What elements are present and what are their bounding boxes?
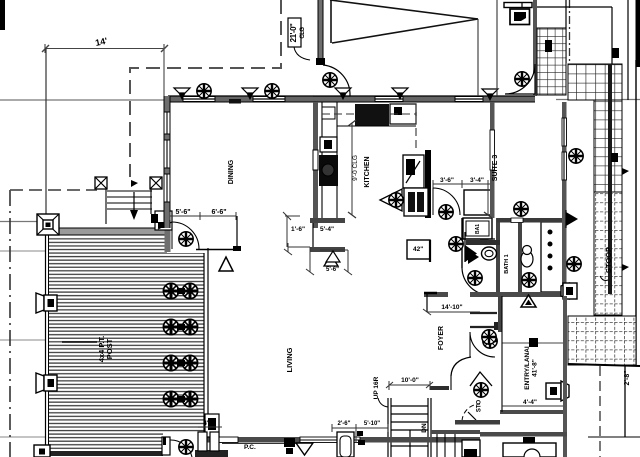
top-right door arc xyxy=(505,64,535,94)
dashed line y190 xyxy=(10,189,97,191)
wall right of fireplace xyxy=(533,0,537,96)
window tag triangle mid xyxy=(521,295,536,307)
stair post left xyxy=(95,177,107,189)
construction line left y100 xyxy=(0,99,167,101)
door jamb boxes bottom xyxy=(198,432,207,451)
svg-text:ENTRY/LANAI: ENTRY/LANAI xyxy=(524,346,531,390)
dining bottom corner vertical xyxy=(236,216,238,249)
line from apex down xyxy=(477,19,479,96)
wall left (dining) xyxy=(164,96,170,228)
porch step edge bottom xyxy=(195,450,228,457)
stair flag xyxy=(131,180,138,187)
wc box xyxy=(462,440,480,457)
dining bottom wall xyxy=(196,249,241,251)
suite3 left wall xyxy=(490,102,495,218)
front door foot xyxy=(561,283,577,299)
svg-text:STOOP: STOOP xyxy=(604,247,613,273)
pointer triangle bath1 xyxy=(465,245,477,262)
bottom tile grid right xyxy=(568,316,636,365)
angled closet door xyxy=(470,372,492,386)
bottom wall main xyxy=(205,437,480,443)
svg-text:POST: POST xyxy=(105,338,114,359)
living dim right corner xyxy=(284,243,314,275)
dim bracket 1'6 xyxy=(283,212,300,247)
entry bench lines xyxy=(470,312,497,314)
bath1 door arc xyxy=(462,268,490,295)
foyer step corner xyxy=(426,292,428,312)
top stub lines near x497 xyxy=(496,0,498,96)
living label xyxy=(285,347,294,372)
svg-text:4'-4": 4'-4" xyxy=(204,421,217,427)
svg-text:P.C.: P.C. xyxy=(244,444,256,451)
svg-text:42": 42" xyxy=(413,246,423,253)
bath walls xyxy=(461,218,463,268)
entry lanai label xyxy=(524,346,539,390)
entry wall vertical x500 xyxy=(498,296,502,332)
REF box xyxy=(403,155,424,188)
fan entry xyxy=(567,257,581,271)
deck left edge xyxy=(45,228,47,455)
small black marks right xyxy=(612,48,619,58)
dashed upper cabinets xyxy=(322,113,356,115)
entry right wall xyxy=(563,296,567,457)
construction line y221 xyxy=(0,221,44,223)
dining door fan xyxy=(179,232,193,246)
small dim bracket living top left xyxy=(320,250,352,275)
kitchen bottom-left wall xyxy=(310,218,345,223)
stair post right xyxy=(150,177,162,189)
wall stub top center xyxy=(318,0,323,62)
svg-text:3'-6": 3'-6" xyxy=(440,177,454,184)
deck corner post top-left xyxy=(37,214,59,235)
vaulted clg triangle xyxy=(330,0,478,43)
kitchen counters left xyxy=(321,102,323,218)
kitchen label xyxy=(364,156,371,187)
kitchen appliances left black xyxy=(320,137,337,152)
construction line right y99 xyxy=(556,99,640,101)
wall segment xyxy=(455,420,500,425)
construction line y340 xyxy=(0,339,46,341)
deck fan pair row2 xyxy=(163,319,178,334)
closet bottom left of stairs xyxy=(337,432,354,457)
window sills on top wall xyxy=(183,97,483,102)
svg-text:2'-8": 2'-8" xyxy=(624,370,631,385)
dn label xyxy=(421,423,428,433)
window tag triangle 2 xyxy=(324,255,338,266)
svg-text:41'-8": 41'-8" xyxy=(532,359,539,377)
corner mark top-left xyxy=(0,0,5,30)
tile grid top (stoop steps) xyxy=(537,28,566,95)
dim small 4-4 xyxy=(198,426,222,428)
deck bottom band xyxy=(36,451,166,456)
toilet room xyxy=(521,251,533,267)
svg-text:6'-6": 6'-6" xyxy=(211,209,226,216)
svg-text:1'-6": 1'-6" xyxy=(291,226,305,233)
suite3 label xyxy=(492,155,499,182)
dimension vertical x164 xyxy=(163,44,165,96)
post in tile grid xyxy=(545,40,552,52)
stoop label xyxy=(604,247,613,273)
dash-dot property line left xyxy=(9,190,11,457)
main mid wall y292 xyxy=(424,292,567,297)
svg-text:5'-10": 5'-10" xyxy=(364,421,380,427)
small wall dash xyxy=(229,99,241,104)
dark vertical band xyxy=(608,64,612,294)
wall kitchen-dining divider xyxy=(313,102,318,228)
bath2 box bottom right xyxy=(503,443,556,457)
svg-text:SUITE 3: SUITE 3 xyxy=(492,155,499,182)
bath1 inner wall xyxy=(466,240,500,245)
deck top band xyxy=(46,228,172,235)
door jamb right xyxy=(205,414,219,437)
svg-text:10'-0": 10'-0" xyxy=(401,377,419,384)
dim 14-10 xyxy=(423,309,480,315)
bottom wall right segment xyxy=(480,432,567,437)
island xyxy=(404,188,428,216)
wh marks xyxy=(244,444,256,451)
hall door arc xyxy=(433,188,460,215)
kitchen range top xyxy=(355,104,389,126)
entry door arc top xyxy=(470,332,495,357)
svg-text:KITCHEN: KITCHEN xyxy=(364,156,371,187)
dashed verticals lanai xyxy=(599,366,601,457)
BA closet box xyxy=(463,218,492,239)
stair treads xyxy=(106,188,152,224)
sconces on top wall xyxy=(174,88,190,99)
island pointer symbol xyxy=(380,189,402,211)
svg-text:LIVING: LIVING xyxy=(285,347,294,372)
label 21-0 rotated xyxy=(289,23,298,42)
deck fan pair row1 xyxy=(163,283,178,298)
svg-text:9'-0 CLG: 9'-0 CLG xyxy=(352,155,359,181)
fan living xyxy=(449,237,463,251)
thin sill line xyxy=(222,443,298,445)
svg-text:14'-10": 14'-10" xyxy=(441,304,462,311)
svg-text:5'-6": 5'-6" xyxy=(175,209,190,216)
dining label xyxy=(228,159,235,184)
dim 2-6 5-10 xyxy=(332,424,388,443)
suite3 right wall xyxy=(562,102,567,296)
hall top wall dark xyxy=(497,218,565,223)
dining bump white area over deck xyxy=(167,216,205,253)
stair dim xyxy=(386,381,433,390)
deck fan pair row4 xyxy=(163,391,178,406)
svg-text:3'-4": 3'-4" xyxy=(470,177,484,184)
closet mid wall xyxy=(430,386,449,390)
svg-text:FOYER: FOYER xyxy=(438,326,445,350)
dimension vertical x46 xyxy=(45,48,47,216)
svg-text:4'-4": 4'-4" xyxy=(523,399,537,406)
closet narrow xyxy=(541,222,563,292)
closet arc right of stairs xyxy=(451,357,471,376)
entry mid wall y412 xyxy=(500,410,565,414)
deck door bottom xyxy=(162,437,170,455)
deck-dining door jamb xyxy=(151,211,172,230)
dimension line 14ft top xyxy=(42,44,168,53)
deck door bottom white area xyxy=(163,433,204,457)
svg-text:21'-0": 21'-0" xyxy=(289,23,298,42)
black bar right edge top xyxy=(636,0,640,67)
dining door arc xyxy=(172,222,199,249)
hall top dim line xyxy=(433,180,492,188)
svg-text:5'-6": 5'-6" xyxy=(326,267,339,273)
entry post on wall xyxy=(546,381,569,401)
kitchen dim vertical xyxy=(351,123,353,215)
construction line y251 xyxy=(0,250,46,252)
right of stairs walls xyxy=(431,430,480,434)
dining bump left wall xyxy=(165,228,171,252)
stair down arrow xyxy=(133,192,135,212)
vertical tile strip right xyxy=(594,100,622,192)
svg-text:DINING: DINING xyxy=(228,159,235,184)
svg-text:5'-4": 5'-4" xyxy=(320,226,334,233)
svg-text:BATH 1: BATH 1 xyxy=(504,254,510,273)
svg-text:DN: DN xyxy=(421,423,428,433)
big tile grid top right xyxy=(568,64,622,100)
dim 1-4 xyxy=(502,405,565,407)
right edge line xyxy=(635,60,637,366)
deck hatch xyxy=(48,237,204,450)
dashed swing xyxy=(462,404,480,421)
wall top main xyxy=(168,97,535,102)
fan lower xyxy=(514,202,528,216)
box 42 high wall xyxy=(407,240,430,259)
counter line xyxy=(337,125,416,127)
triangle right wall xyxy=(566,212,578,226)
up label xyxy=(373,376,380,399)
fans near top wall xyxy=(197,84,211,98)
deck post left mid1 xyxy=(36,293,57,313)
deck label leader xyxy=(62,341,97,343)
dash-dot top right x569 xyxy=(565,0,567,63)
thick black wall kitchen right xyxy=(425,150,431,218)
dim line dining bottom xyxy=(170,212,236,220)
shower box xyxy=(464,190,492,215)
svg-text:STO: STO xyxy=(477,400,483,413)
svg-text:BA1: BA1 xyxy=(475,224,481,234)
window tag triangle 1 xyxy=(219,257,233,271)
entry dim line xyxy=(502,342,565,344)
foyer label xyxy=(438,326,445,350)
suite3 fan xyxy=(569,149,583,163)
svg-text:UP 16R: UP 16R xyxy=(373,376,380,399)
deck corner post bottom-left xyxy=(34,445,50,457)
deck post left mid2 xyxy=(36,373,57,393)
deck label text xyxy=(97,336,114,363)
deck right edge xyxy=(203,237,205,443)
dashed overhang top xyxy=(130,0,281,177)
door arc top center xyxy=(313,65,350,96)
svg-text:2'-6": 2'-6" xyxy=(338,421,351,427)
suite3 dim xyxy=(487,180,489,215)
construction line y437 xyxy=(0,436,46,438)
toilet bath1 xyxy=(482,247,497,260)
deck fan pair row3 xyxy=(163,355,178,370)
